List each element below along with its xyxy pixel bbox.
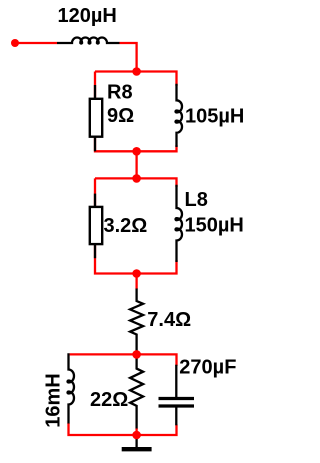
svg-text:270µF: 270µF — [179, 357, 236, 379]
svg-text:7.4Ω: 7.4Ω — [147, 309, 191, 331]
svg-text:L8: L8 — [185, 189, 208, 211]
svg-text:22Ω: 22Ω — [90, 389, 128, 411]
svg-text:9Ω: 9Ω — [107, 105, 134, 127]
svg-text:3.2Ω: 3.2Ω — [104, 215, 148, 237]
svg-text:120µH: 120µH — [58, 5, 117, 27]
svg-text:105µH: 105µH — [185, 106, 244, 128]
svg-text:16mH: 16mH — [43, 373, 65, 427]
svg-text:R8: R8 — [107, 82, 133, 104]
svg-text:150µH: 150µH — [185, 215, 244, 237]
